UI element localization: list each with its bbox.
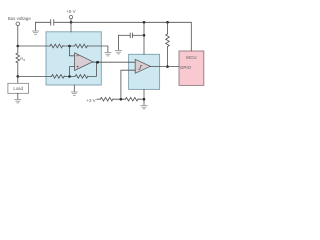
wire: R2 out of box to ground drop (88, 46, 108, 52)
wire: top sense line into amplifier block (18, 45, 50, 47)
wire: divider tap riser to comparator minus input (121, 70, 135, 99)
wire: rail left segment to bypass cap (36, 21, 51, 23)
wire: bus column top (terminal to top sense node) (17, 26, 19, 46)
wire: op-amp output to comparator input (93, 61, 135, 63)
wire: comparator supply column (143, 22, 145, 54)
capacitor C1 (bypass) (51, 20, 54, 26)
wire: C2 left leg to ground drop (119, 34, 131, 36)
wire: R7 to ground node (138, 98, 144, 100)
wire: R4 up to output node (88, 62, 98, 76)
node: top sense junction (17, 45, 20, 48)
ground (below amplifier block) (71, 92, 77, 95)
node: divider ground junction (143, 98, 146, 101)
wire: C1 left leg down to ground (35, 22, 37, 30)
ground (under C2) (115, 51, 121, 54)
resistor R3 (bottom left, horizontal) (52, 75, 65, 79)
wire: load to ground (17, 93, 19, 99)
wire: R1 to top node (63, 45, 75, 47)
node: rail junction pull-up (166, 21, 169, 24)
comparator U2 hysteresis symbol (139, 66, 142, 70)
svg-text:+5 V: +5 V (66, 9, 75, 14)
resistor R1 (top left, horizontal) (50, 44, 63, 48)
resistor R7 (divider bottom, horizontal) (125, 97, 138, 101)
svg-text:Load: Load (13, 86, 23, 91)
wire: comparator ground pin to divider node (143, 89, 145, 99)
wire: C1 to +5 V node (54, 21, 71, 23)
wire: +5 V terminal to rail (70, 19, 72, 22)
svg-text:RS: RS (20, 56, 25, 62)
wire: bottom node up to op-amp plus input (70, 67, 75, 77)
wire: top node down to op-amp minus input (70, 46, 75, 56)
wire: pull-up top lead (167, 22, 169, 34)
wire: amplifier supply drop into box (70, 22, 72, 32)
node: amplifier output junction (96, 61, 99, 64)
wire: amplifier block ground pin (73, 85, 75, 91)
wire: R6 to divider node (113, 98, 125, 100)
resistor R2 (top right, horizontal) (75, 44, 88, 48)
wire: bus column between sense taps (17, 46, 19, 53)
wire: +3 V lead (97, 98, 101, 100)
node: op-amp top input node (68, 45, 71, 48)
op-amp U1 plus sign (77, 66, 79, 68)
terminal: +5 V (69, 15, 72, 18)
ground (below load) (15, 100, 21, 103)
node: op-amp bottom input node (68, 75, 71, 78)
capacitor C2 (comparator decoupling) (130, 33, 132, 38)
amplifier block (light blue box) (46, 32, 101, 85)
node: bottom sense junction (17, 75, 20, 78)
wire: comparator output to MCU GPIO (150, 66, 179, 68)
node: divider tap (120, 98, 123, 101)
node: comparator output junction (166, 65, 169, 68)
node: rail junction comparator supply (143, 21, 146, 24)
load box (8, 83, 29, 93)
wire: ground node drop (143, 99, 145, 105)
svg-text:MCU: MCU (186, 55, 196, 60)
svg-text:GPIO: GPIO (180, 65, 192, 70)
wire: bus column to load (17, 76, 19, 83)
resistor R5 (pull-up, vertical) (166, 34, 170, 47)
ground (right of amplifier block) (105, 53, 111, 56)
terminal: bus voltage (16, 22, 20, 26)
ground (left of amplifier block) (32, 31, 38, 34)
ground (below divider) (141, 106, 147, 109)
svg-text:+3 V: +3 V (86, 98, 95, 103)
resistor R6 (divider top, horizontal) (100, 97, 113, 101)
comparator block (light blue box) (129, 54, 160, 89)
wire: bottom sense line into amplifier block (18, 75, 52, 77)
comparator U2 (135, 59, 150, 73)
wire: cap node to C2 (132, 34, 144, 36)
resistor R4 (feedback, horizontal) (75, 75, 88, 79)
node: decoupling cap junction (143, 34, 146, 37)
wire: pull-up bottom lead to output line (167, 47, 169, 67)
op-amp U1 minus sign (77, 55, 79, 57)
svg-text:Bus voltage: Bus voltage (8, 16, 32, 21)
wire: R3 to bottom node (64, 75, 75, 77)
resistor RS (shunt, vertical) (16, 53, 20, 63)
op-amp U1 (75, 53, 93, 71)
node: +5 V rail junction at amplifier supply (70, 21, 73, 24)
wire: +5 V rail to MCU (71, 22, 191, 51)
wire: bus column below shunt (17, 63, 19, 76)
MCU block (pink box) (179, 51, 204, 85)
